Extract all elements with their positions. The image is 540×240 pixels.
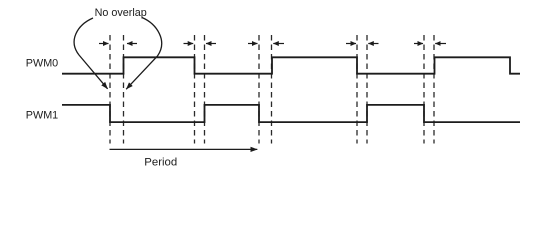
gap arrows pair 4 bbox=[346, 43, 379, 45]
dashed line pair 5 bbox=[424, 35, 434, 144]
PWM0 waveform bbox=[62, 57, 520, 73]
svg-text:No overlap: No overlap bbox=[95, 7, 147, 19]
svg-text:PWM1: PWM1 bbox=[26, 109, 58, 121]
gap arrows pair 3 bbox=[248, 43, 284, 45]
gap arrows pair 2 bbox=[184, 43, 217, 45]
dashed line pair 1 bbox=[110, 35, 124, 144]
PWM1 waveform bbox=[62, 105, 520, 122]
curved arrow right (No overlap to second dashed line) bbox=[126, 18, 161, 90]
dashed line pair 4 bbox=[357, 35, 367, 144]
dashed line pair 2 bbox=[195, 35, 205, 144]
gap arrows pair 5 bbox=[414, 43, 446, 45]
curved arrow left (No overlap to first dashed line) bbox=[74, 18, 107, 89]
dashed line pair 3 bbox=[259, 35, 272, 144]
period arrow bbox=[110, 148, 258, 150]
svg-text:Period: Period bbox=[144, 156, 177, 168]
svg-text:PWM0: PWM0 bbox=[26, 58, 58, 70]
gap arrows pair 1 bbox=[99, 43, 137, 45]
